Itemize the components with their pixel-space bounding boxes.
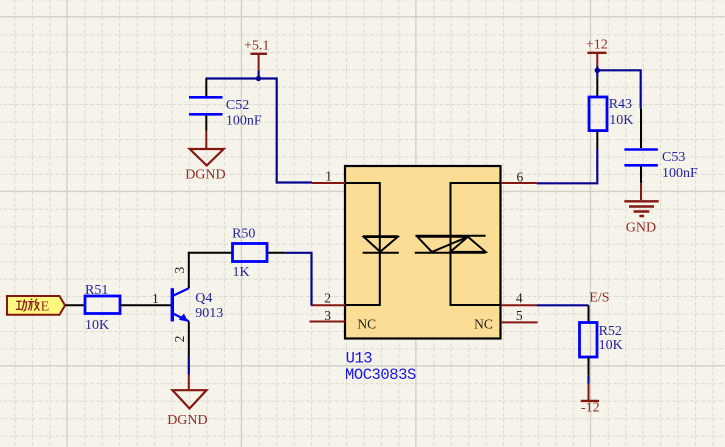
svg-text:R51: R51 <box>85 283 108 298</box>
power +5.1 <box>244 39 269 71</box>
svg-text:+5.1: +5.1 <box>244 39 269 54</box>
wire pin 4 to R52 <box>537 304 589 306</box>
wire +12 rail <box>597 66 640 108</box>
svg-text:10K: 10K <box>85 318 109 333</box>
svg-text:R52: R52 <box>599 324 622 339</box>
svg-text:MOC3083S: MOC3083S <box>345 366 416 384</box>
power -12 <box>581 384 600 416</box>
svg-text:1K: 1K <box>233 265 250 280</box>
ground DGND (under Q4) <box>167 375 207 429</box>
wire R43 to pin6 <box>537 149 599 183</box>
svg-text:C52: C52 <box>226 98 249 113</box>
svg-text:E: E <box>41 299 50 314</box>
wire R50 to pin 2 <box>285 253 311 305</box>
svg-text:3: 3 <box>324 308 331 323</box>
internal wiring left (pin1-pin2 loop) <box>346 183 380 305</box>
svg-text:NC: NC <box>474 317 493 332</box>
svg-text:-12: -12 <box>581 401 600 416</box>
svg-text:+12: +12 <box>586 38 608 53</box>
svg-text:U13: U13 <box>346 350 373 368</box>
Q4 collector pin <box>188 253 190 288</box>
pin 2 <box>311 304 345 306</box>
svg-text:100nF: 100nF <box>226 114 262 129</box>
resistor R52 <box>580 305 623 376</box>
svg-text:R50: R50 <box>232 226 255 241</box>
svg-text:9013: 9013 <box>195 306 223 321</box>
svg-text:R43: R43 <box>609 97 632 112</box>
pin 3 <box>310 321 346 323</box>
optocoupler U13 body <box>345 166 501 339</box>
svg-text:1: 1 <box>325 168 332 183</box>
svg-text:10K: 10K <box>609 113 633 128</box>
svg-text:2: 2 <box>324 291 331 306</box>
svg-text:C53: C53 <box>662 150 685 165</box>
svg-text:2: 2 <box>172 336 187 343</box>
wire port to R51 <box>65 304 85 306</box>
triac symbol inside U13 <box>415 236 486 253</box>
svg-text:E/S: E/S <box>589 290 609 305</box>
ground DGND (under C52) <box>185 131 225 183</box>
pin 5 <box>501 321 538 323</box>
wire R51 to Q4 base <box>120 304 171 306</box>
svg-text:4: 4 <box>516 291 523 306</box>
junction at +12 rail <box>595 68 600 73</box>
wire +5.1 rail to C52 and pin1 <box>206 70 313 182</box>
resistor R50 <box>232 226 267 280</box>
resistor R43 <box>589 78 633 149</box>
wire emitter to DGND <box>188 356 190 374</box>
svg-text:10K: 10K <box>599 338 623 353</box>
glyph 放 <box>28 299 39 311</box>
svg-text:3: 3 <box>172 266 187 273</box>
junction at +5.1 rail <box>256 76 261 81</box>
pin 1 <box>312 182 345 184</box>
transistor Q4 <box>172 288 223 321</box>
svg-text:DGND: DGND <box>167 413 207 428</box>
svg-text:Q4: Q4 <box>195 291 212 306</box>
svg-text:6: 6 <box>517 169 524 184</box>
svg-text:DGND: DGND <box>185 168 225 183</box>
resistor R51 <box>85 283 120 333</box>
glyph 功 <box>16 299 27 310</box>
svg-text:GND: GND <box>626 220 656 235</box>
ground GND (under C53) <box>624 183 658 235</box>
R50 right pin <box>267 252 285 254</box>
pin 6 <box>501 182 537 184</box>
svg-text:100nF: 100nF <box>662 166 698 181</box>
internal wiring right (pin6-pin4 loop) <box>451 183 501 305</box>
Q4 emitter pin <box>188 321 190 356</box>
svg-text:5: 5 <box>516 308 523 323</box>
capacitor C52 <box>189 79 262 131</box>
pin 4 <box>501 304 537 306</box>
power +12 <box>586 38 608 66</box>
port 功放E <box>7 296 65 315</box>
LED symbol inside U13 <box>363 236 399 253</box>
wire R52 to -12 <box>587 376 589 384</box>
svg-text:NC: NC <box>357 317 376 332</box>
capacitor C53 <box>624 108 698 183</box>
svg-text:1: 1 <box>152 291 159 306</box>
wire collector to R50 <box>188 252 233 254</box>
